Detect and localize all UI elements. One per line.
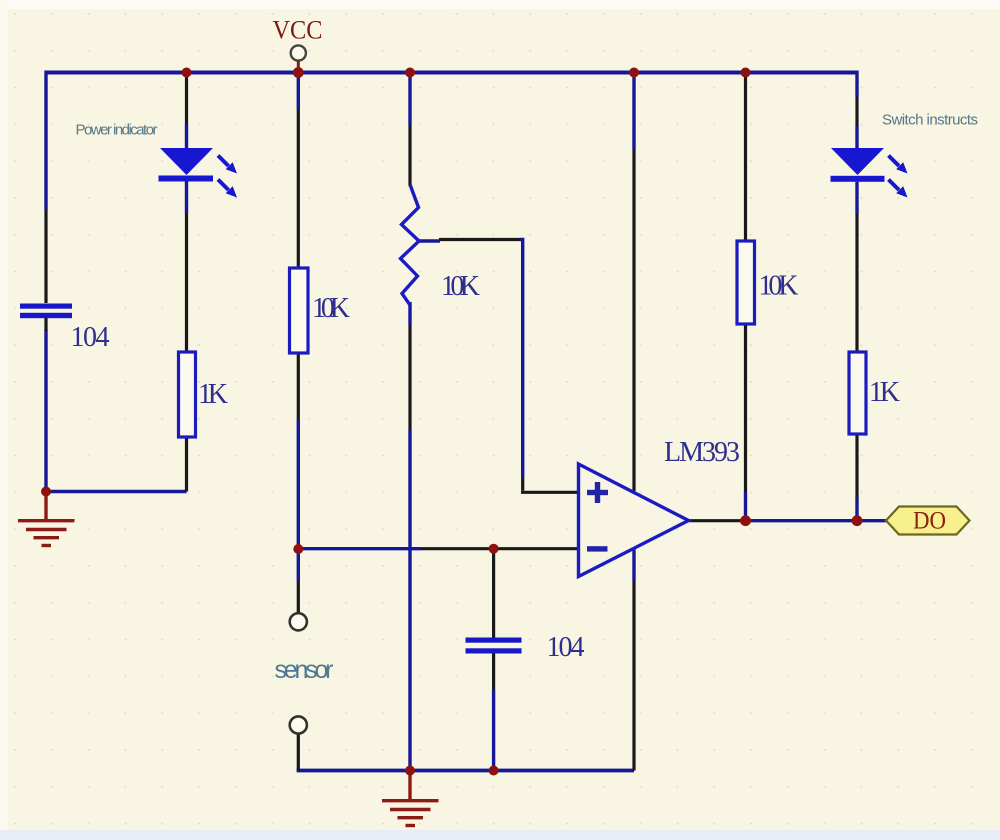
svg-text:10K: 10K: [441, 271, 480, 302]
svg-text:1K: 1K: [869, 377, 900, 408]
svg-text:10K: 10K: [312, 293, 350, 324]
svg-text:10K: 10K: [759, 271, 799, 302]
svg-text:DO: DO: [913, 508, 946, 535]
svg-text:104: 104: [547, 632, 585, 663]
svg-text:sensor: sensor: [275, 656, 334, 684]
svg-text:104: 104: [71, 322, 110, 353]
svg-text:LM393: LM393: [664, 437, 740, 468]
svg-text:1K: 1K: [198, 379, 228, 410]
svg-text:VCC: VCC: [273, 16, 323, 45]
svg-text:Power indicator: Power indicator: [76, 122, 158, 139]
svg-text:Switch instructs: Switch instructs: [882, 112, 978, 129]
